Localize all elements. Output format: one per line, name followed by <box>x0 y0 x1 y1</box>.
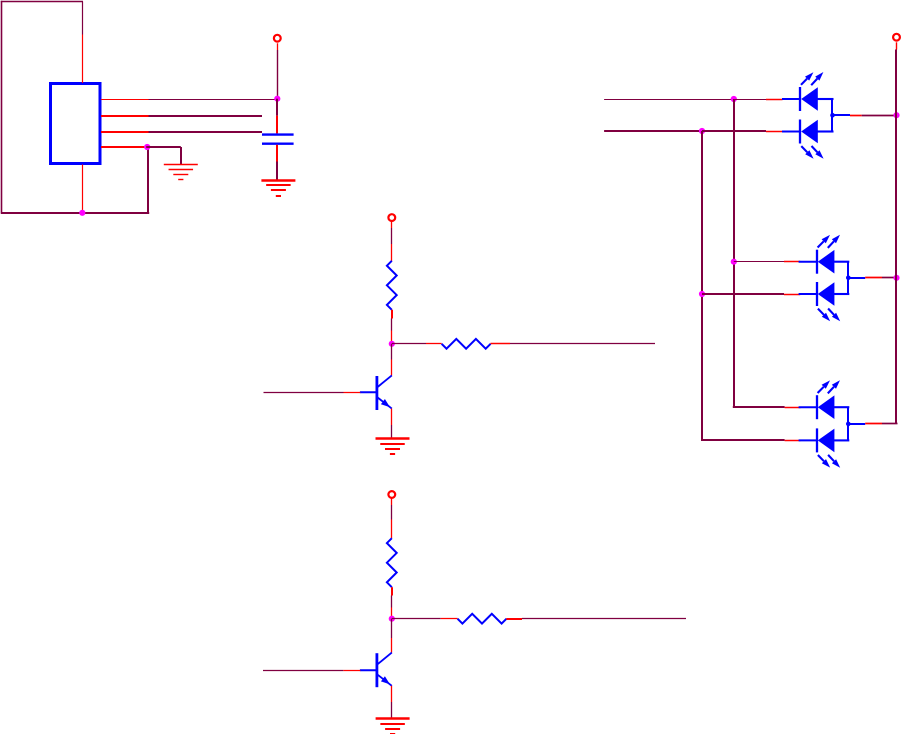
wire A <box>604 99 734 101</box>
pin LED3 cathode <box>784 261 800 263</box>
transistor Q2 <box>360 653 392 688</box>
terminal <box>274 35 281 42</box>
LED D3 light arrows <box>818 235 840 248</box>
LED D4 light arrows <box>818 309 840 322</box>
wire pair 1 to rail <box>862 115 897 117</box>
pin LED5 cathode <box>785 407 801 409</box>
pin Q1 emitter <box>391 409 393 425</box>
junction dot A <box>731 96 737 102</box>
wire rail B bottom elbow <box>701 439 785 441</box>
wire R3 to junction <box>391 596 393 608</box>
wire net loop upper-right <box>82 2 84 35</box>
wire p2 stub <box>149 115 263 117</box>
wire Q1 base input <box>264 392 344 394</box>
resistor R2 <box>442 339 491 349</box>
wire junction to R2 <box>392 343 426 345</box>
LED D1 <box>782 87 834 111</box>
pin LED2 cathode <box>766 131 783 133</box>
pin Q1 base <box>344 392 361 394</box>
pin pair 3 output <box>865 423 882 425</box>
pin U1 p4 <box>101 146 144 148</box>
wire junction to Q1 <box>391 344 393 360</box>
wire rail A branch mid <box>734 261 784 263</box>
terminal <box>893 34 900 41</box>
pin LED1 cathode <box>766 99 783 101</box>
ground <box>376 719 410 734</box>
junction dot pair 3 <box>846 422 851 427</box>
wire p4 to ground <box>146 146 181 148</box>
junction dot C1 <box>274 96 280 102</box>
junction dot Q2 collector node <box>389 616 395 622</box>
pin Q1 collector <box>391 360 393 376</box>
ground <box>376 439 410 455</box>
transistor Q1 <box>360 375 392 410</box>
wire terminal to R3 <box>391 505 393 520</box>
pin terminal <box>277 43 279 50</box>
pin Q2 emitter <box>391 686 393 702</box>
wire into junction <box>391 331 393 344</box>
pin R4 left <box>441 618 458 620</box>
wire terminal to R1 <box>391 228 393 244</box>
wire LED pair 2 jumper <box>847 262 849 294</box>
wire pair 2 output <box>848 277 865 279</box>
wire net loop left <box>1 1 3 214</box>
junction dot rail A mid <box>731 259 737 265</box>
ground <box>261 181 295 197</box>
pin U1 p3 <box>101 131 149 133</box>
wire R2 output <box>510 343 655 345</box>
wire pair 3 to rail elbow <box>882 423 898 425</box>
LED D2 <box>782 120 834 144</box>
wire into junction <box>391 608 393 619</box>
wire rail A down <box>733 99 735 407</box>
LED D5 <box>799 395 850 419</box>
junction dot p4 <box>144 144 150 150</box>
LED D6 light arrows <box>818 455 840 468</box>
pin Q2 collector <box>391 638 393 653</box>
pin Q2 base <box>343 670 360 672</box>
pin U1 bottom <box>82 165 84 213</box>
LED D6 <box>799 428 850 452</box>
pin pair 1 output <box>850 115 862 117</box>
wire junction to C1 <box>276 99 278 116</box>
wire rail A bottom elbow <box>733 406 785 408</box>
junction dot B <box>699 128 705 134</box>
LED D3 <box>799 250 850 274</box>
pin R4 right <box>506 618 522 620</box>
wire net loop top <box>1 1 83 3</box>
pin C1 top <box>276 116 278 134</box>
junction dot pair 2 <box>846 276 851 281</box>
wire p3 stub <box>149 131 263 133</box>
wire pair 3 output <box>848 423 865 425</box>
junction dot rail mid <box>893 275 899 281</box>
pin LED4 cathode <box>784 294 800 296</box>
junction dot rail B mid <box>699 291 705 297</box>
wire LED pair 3 jumper <box>847 407 849 440</box>
junction dot pair 1 <box>830 113 835 118</box>
wire C1 to ground <box>276 162 278 181</box>
wire B to LED2 <box>702 130 766 132</box>
pin U1 p2 <box>101 115 149 117</box>
pin terminal <box>391 221 393 228</box>
LED D1 light arrows <box>801 72 823 85</box>
LED D2 light arrows <box>801 146 823 159</box>
pin R2 right <box>491 343 511 345</box>
pin C1 bottom <box>276 145 278 162</box>
wire R4 output <box>522 618 686 620</box>
wire Q2 base input <box>263 670 343 672</box>
wire junction to R4 <box>392 618 441 620</box>
junction dot <box>79 210 85 216</box>
wire junction to Q2 <box>391 619 393 638</box>
resistor R1 <box>387 261 397 310</box>
terminal <box>388 491 395 498</box>
wire Q1 emitter to ground <box>391 425 393 438</box>
wire LED pair 1 jumper <box>831 99 833 132</box>
resistor R4 <box>458 614 507 624</box>
LED D5 light arrows <box>818 380 840 393</box>
LED D4 <box>799 282 850 306</box>
pin R3 top <box>391 520 393 539</box>
wire A to LED1 <box>734 99 766 101</box>
pin R1 top <box>391 244 393 261</box>
pin terminal right <box>896 42 898 49</box>
wire rail B branch mid <box>702 293 784 295</box>
pin R3 bottom <box>391 587 393 595</box>
ground <box>164 165 198 180</box>
wire terminal to junction <box>277 50 279 99</box>
wire B <box>604 130 702 132</box>
IC U1 <box>51 84 101 164</box>
wire rail right <box>895 50 897 424</box>
wire R1 to junction <box>391 319 393 331</box>
wire Q2 emitter to ground <box>391 702 393 718</box>
wire pair 2 to rail <box>882 277 897 279</box>
wire p1 to C1 <box>149 99 278 101</box>
pin R2 left <box>426 343 442 345</box>
wire net loop right <box>147 147 149 214</box>
pin LED6 cathode <box>785 440 801 442</box>
terminal <box>388 214 395 221</box>
pin U1 p1 <box>101 99 149 101</box>
pin terminal <box>391 498 393 505</box>
wire rail B down <box>701 131 703 440</box>
junction dot rail top <box>893 112 899 118</box>
resistor R3 <box>387 538 397 587</box>
pin R1 bottom <box>391 310 393 319</box>
capacitor C1 <box>262 135 294 144</box>
pin pair 2 output <box>865 277 882 279</box>
wire pair 1 output <box>833 114 851 116</box>
wire net loop bottom <box>1 212 149 214</box>
junction dot Q1 collector node <box>389 341 395 347</box>
pin U1 top <box>82 35 84 84</box>
